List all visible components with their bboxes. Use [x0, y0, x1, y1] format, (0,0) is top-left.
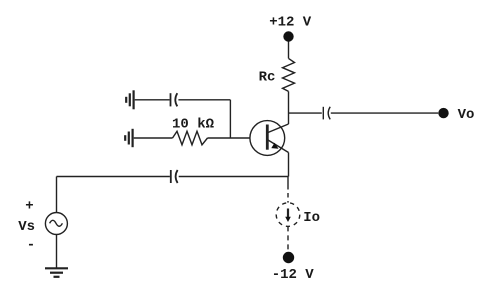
svg-text:+: +: [25, 199, 33, 215]
svg-text:10 kΩ: 10 kΩ: [172, 116, 215, 132]
svg-text:-12 V: -12 V: [272, 267, 315, 283]
svg-text:Io: Io: [303, 210, 320, 226]
svg-text:-: -: [27, 237, 35, 253]
svg-text:Vo: Vo: [458, 107, 475, 123]
svg-text:Vs: Vs: [18, 219, 35, 235]
svg-text:+12 V: +12 V: [269, 14, 312, 30]
svg-text:Rc: Rc: [259, 70, 276, 86]
